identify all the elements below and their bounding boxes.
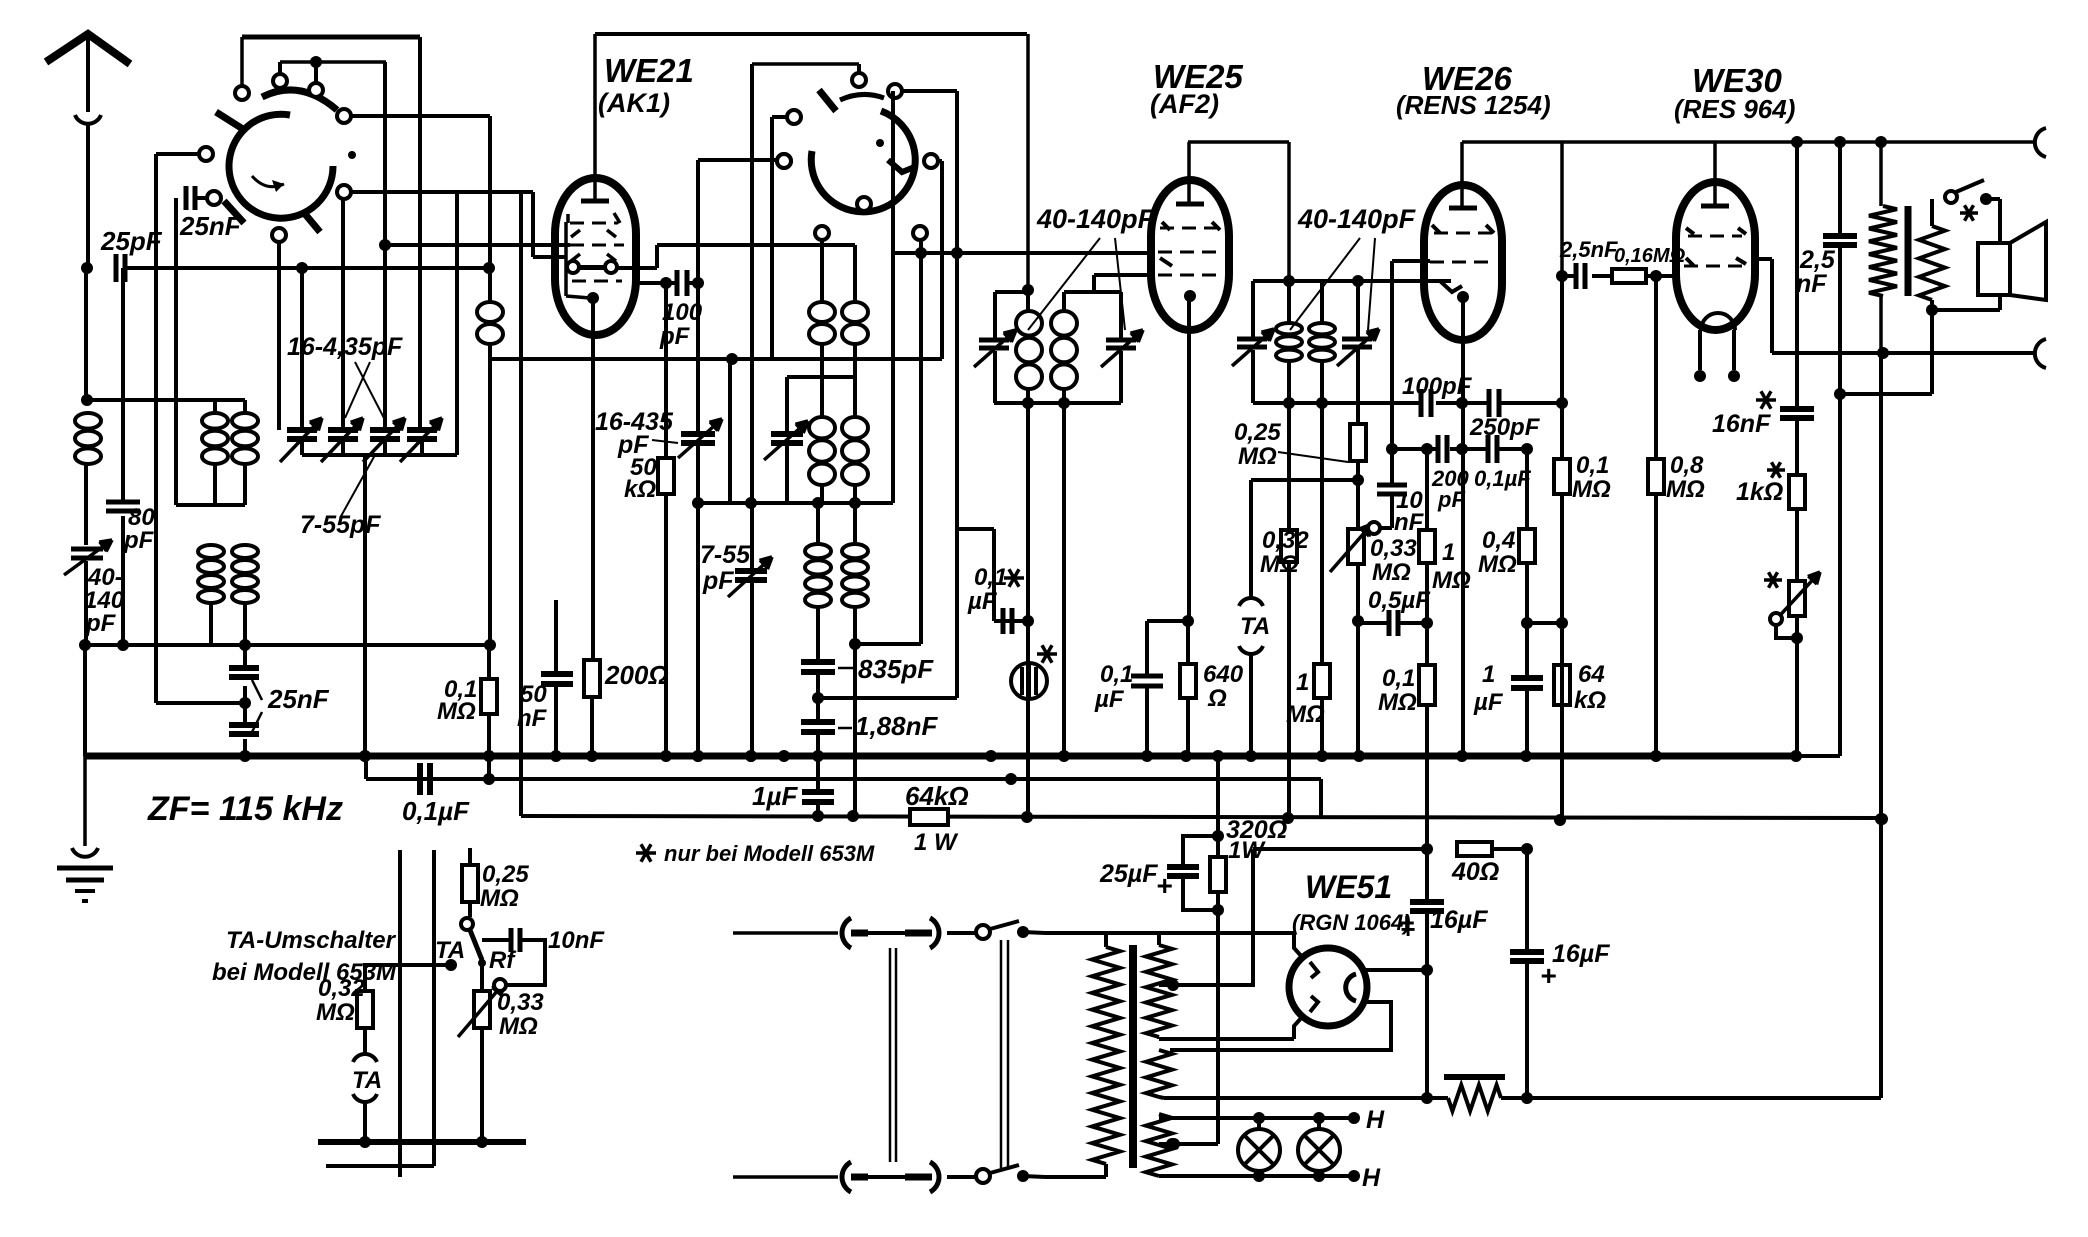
capacitor 1uF b	[1525, 623, 1529, 677]
wire WE26 top	[1460, 142, 1464, 206]
IFT1 left leg	[993, 292, 997, 341]
svg-text:250pF: 250pF	[1469, 414, 1541, 441]
svg-text:pF: pF	[617, 431, 649, 459]
coil L2a	[213, 400, 217, 412]
IFT2 top	[1253, 279, 1451, 283]
wire x457	[455, 192, 459, 455]
svg-text:H: H	[1362, 1164, 1381, 1192]
capacitor 0.1uF c	[1486, 435, 1491, 463]
coil L3a	[198, 545, 224, 558]
svg-text:MΩ: MΩ	[437, 698, 476, 725]
WE26 top cap	[1449, 206, 1477, 211]
variable capacitor 16-435pF gang 3	[370, 427, 400, 433]
wire cathode	[1187, 296, 1191, 621]
wire cath link	[1147, 619, 1188, 623]
resistor 64kOhm b	[1554, 665, 1570, 705]
wire AG	[855, 642, 921, 646]
wire bus extension	[1798, 754, 1840, 758]
wire y390	[86, 398, 245, 402]
wire x1881 low	[1879, 353, 1883, 1098]
svg-text:MΩ: MΩ	[1432, 567, 1471, 594]
wire J	[698, 158, 778, 162]
resistor 0.16MOhm	[1612, 269, 1646, 283]
mains switch top	[947, 931, 976, 935]
wire x921	[919, 253, 923, 644]
mains switch bottom	[947, 1175, 976, 1179]
wire y455	[302, 453, 457, 457]
wire F	[350, 114, 490, 118]
wire Y	[1251, 478, 1358, 482]
capacitor 2.5nF	[1574, 263, 1579, 289]
svg-text:1: 1	[1482, 661, 1495, 688]
tube WE51	[1289, 948, 1367, 1026]
capacitor 250pF	[1487, 389, 1492, 417]
wire antenna down	[84, 268, 88, 400]
wire U	[787, 375, 855, 379]
coil L3b	[232, 545, 258, 558]
wire S	[1772, 351, 2035, 355]
resistor 320 Ohm	[1210, 857, 1226, 892]
svg-text:ZF= 115 kHz: ZF= 115 kHz	[147, 790, 343, 828]
capacitor 0.1uF star	[1001, 608, 1006, 634]
TA coupler b	[363, 1028, 367, 1053]
switch blade	[216, 112, 246, 131]
IFT2 right chain	[1356, 281, 1360, 339]
resistor 0.32MOhm	[357, 991, 373, 1028]
variable capacitor 16-435pF gang 4	[407, 427, 437, 433]
mains lead bottom	[733, 1175, 838, 1179]
mains cable b	[1000, 940, 1003, 1168]
svg-text:H: H	[1366, 1106, 1385, 1134]
wire x302	[300, 268, 304, 428]
switch Rf blade	[470, 930, 482, 960]
rotary switch S2 arc	[811, 111, 915, 212]
wire x1289 avc	[1287, 403, 1291, 530]
wire	[857, 64, 861, 74]
mains cable	[889, 948, 892, 1162]
WE21 cathode	[587, 292, 599, 304]
svg-text:835pF: 835pF	[858, 654, 934, 684]
svg-text:TA: TA	[1240, 613, 1270, 640]
svg-text:10nF: 10nF	[548, 927, 605, 954]
capacitor 1.88nF	[801, 719, 835, 725]
osc coil L5b	[853, 245, 857, 301]
svg-text:1kΩ: 1kΩ	[1736, 478, 1783, 506]
contact	[913, 226, 927, 240]
WE25 internals	[1160, 227, 1222, 230]
svg-text:2,5nF: 2,5nF	[1559, 237, 1618, 262]
contact	[1368, 522, 1380, 534]
wire WE30 top	[1713, 142, 1717, 204]
variable capacitor 40-140 b	[1106, 338, 1136, 343]
capacitor 50nF	[554, 600, 558, 672]
tube WE26 envelope	[1424, 185, 1502, 340]
svg-text:40-140pF: 40-140pF	[1036, 204, 1156, 234]
capacitor 1uF	[816, 756, 820, 791]
node	[1022, 284, 1034, 296]
svg-text:TA-Umschalter: TA-Umschalter	[226, 927, 397, 954]
mains lead top	[733, 931, 838, 935]
switch blade	[1956, 180, 1984, 192]
trimmer 7-55pF c	[735, 568, 767, 574]
IFT1 coil a	[1026, 292, 1030, 310]
WE30 anode out	[1755, 257, 1772, 261]
wire x698	[696, 160, 700, 434]
resistor 0.4MOhm	[1525, 449, 1529, 529]
switch blade	[819, 90, 836, 111]
svg-text:0,33: 0,33	[1370, 535, 1417, 562]
wire L1	[364, 756, 368, 779]
node	[483, 262, 495, 274]
output choke	[1879, 142, 1883, 206]
svg-text:1: 1	[1442, 539, 1455, 566]
svg-text:200Ω: 200Ω	[604, 660, 669, 690]
svg-text:(AF2): (AF2)	[1150, 89, 1219, 119]
wire x893	[891, 91, 895, 503]
HV center tap	[1159, 849, 1253, 985]
svg-text:nur bei Modell 653M: nur bei Modell 653M	[664, 841, 875, 866]
coil L2b	[243, 400, 247, 412]
core bar	[1905, 206, 1912, 296]
wire x994 chain	[992, 529, 996, 621]
wire x1427 down	[1425, 563, 1429, 665]
capacitor 0.5uF	[1358, 621, 1389, 625]
osc coil L5a	[820, 239, 824, 301]
wire AI	[818, 696, 957, 700]
svg-text:µF: µF	[1473, 689, 1504, 716]
coil L4	[477, 302, 503, 322]
wire	[772, 115, 788, 119]
wire x489	[487, 645, 491, 679]
IFT2 coil a	[1287, 281, 1291, 322]
osc coil L7a	[816, 503, 820, 543]
WE21 internal grids	[566, 214, 570, 223]
antenna	[46, 34, 130, 64]
svg-text:pF: pF	[659, 323, 691, 350]
wire grid line y244	[379, 239, 391, 251]
svg-text:16µF: 16µF	[1552, 940, 1610, 968]
switch blade	[305, 214, 320, 232]
wire x422	[418, 37, 422, 428]
variable capacitor 40-140pF	[71, 547, 103, 552]
contact	[924, 154, 938, 168]
svg-text:(RENS 1254): (RENS 1254)	[1396, 90, 1551, 120]
capacitor 100pF	[636, 281, 677, 285]
switch blade	[888, 160, 917, 172]
resistor 200 Ohm	[584, 660, 600, 697]
variable capacitor 40-140 c	[1237, 337, 1267, 342]
WE30 filament legs	[1698, 330, 1702, 370]
svg-text:MΩ: MΩ	[480, 885, 519, 912]
resistor 0.8MOhm	[1654, 276, 1658, 459]
contact	[337, 185, 351, 199]
output terminal bottom	[2035, 339, 2046, 368]
wire x385	[383, 62, 387, 428]
svg-text:0,4: 0,4	[1482, 527, 1515, 554]
svg-text:0,1µF: 0,1µF	[1474, 466, 1531, 491]
wire 25nF chain	[243, 645, 247, 667]
wire T	[490, 357, 942, 361]
wire y645	[85, 643, 490, 647]
switch blade	[224, 201, 244, 223]
svg-text:0,25: 0,25	[1234, 419, 1281, 446]
svg-text:MΩ: MΩ	[1378, 689, 1417, 716]
wire WE51 fil out	[1366, 968, 1427, 972]
ground	[83, 756, 87, 846]
contact	[273, 74, 287, 88]
osc coil L6a	[820, 377, 824, 416]
wire L2	[521, 816, 1882, 818]
svg-text:pF: pF	[702, 567, 734, 595]
IFT1 top	[995, 290, 1028, 294]
trimmer 7-55pF b	[785, 377, 789, 434]
wire y62	[280, 60, 386, 64]
WE26 grid hook	[1440, 281, 1462, 292]
svg-text:1W: 1W	[1228, 837, 1266, 864]
wire jog x666	[664, 283, 668, 756]
wire H rail	[1462, 140, 2035, 144]
contact	[235, 86, 249, 100]
transformer core	[1129, 945, 1137, 1168]
wire D	[752, 62, 859, 66]
wire heater bottom	[1159, 1174, 1354, 1178]
svg-text:MΩ: MΩ	[1478, 551, 1517, 578]
svg-text:TA: TA	[352, 1067, 382, 1094]
variable resistor 0.33MOhm b	[480, 963, 484, 991]
svg-text:MΩ: MΩ	[1238, 443, 1277, 470]
transformer HV winding	[1157, 933, 1161, 945]
capacitor 0.1uF	[417, 763, 423, 795]
svg-text:µF: µF	[1094, 686, 1125, 713]
node	[1352, 275, 1364, 287]
svg-text:pF: pF	[123, 527, 155, 554]
wire WE26 cath	[1461, 297, 1465, 756]
transformer heater winding	[1146, 1114, 1172, 1176]
wire x1064 down	[1062, 403, 1066, 756]
svg-text:0,1: 0,1	[1382, 665, 1415, 692]
WE51 fil wires	[1170, 1002, 1391, 1050]
svg-text:16-4,35pF: 16-4,35pF	[287, 333, 403, 361]
wire grid circle line	[566, 266, 657, 270]
tube WE25 envelope	[1151, 180, 1229, 330]
IFT1 bottom	[994, 401, 1121, 405]
resistor 0.1MOhm a	[1560, 403, 1564, 459]
wire N	[1562, 274, 1576, 278]
capacitor 0.1uF we25	[1145, 621, 1149, 675]
svg-text:+: +	[1156, 870, 1172, 901]
wire x855 down	[853, 644, 857, 816]
wire spk bottom	[1926, 304, 1938, 316]
pilot lamp 1	[1238, 1129, 1280, 1171]
IFT1 coil b	[1062, 292, 1066, 310]
svg-text:7-55: 7-55	[700, 541, 751, 569]
pot wiper loop	[1770, 613, 1782, 625]
svg-text:0,1: 0,1	[1100, 661, 1133, 688]
svg-text:(RES 964): (RES 964)	[1674, 94, 1795, 124]
WE51 plate wires	[1294, 934, 1303, 958]
contact	[787, 110, 801, 124]
wire cathode x593	[591, 298, 595, 660]
wire B top	[595, 32, 1027, 36]
capacitor 100pF b	[1419, 389, 1424, 417]
svg-text:kΩ: kΩ	[1574, 687, 1606, 714]
label 1.88nF	[838, 727, 852, 730]
wire y703	[156, 701, 245, 705]
inset wire x434	[432, 850, 436, 1166]
IFT2 coil b	[1320, 281, 1324, 322]
svg-text:+: +	[1400, 914, 1415, 944]
svg-text:64kΩ: 64kΩ	[905, 781, 969, 811]
resistor 0.25MOhm	[1356, 403, 1360, 424]
osc coil L6b	[853, 377, 857, 416]
resistor 0.32MOhm b	[1281, 530, 1297, 562]
svg-text:0,1: 0,1	[1576, 452, 1609, 479]
WE30 cathode dome	[1701, 313, 1735, 330]
svg-text:25µF: 25µF	[1099, 860, 1158, 888]
switch arrow	[252, 176, 284, 187]
IFT1 right leg	[1119, 292, 1123, 341]
svg-text:0,32: 0,32	[1262, 527, 1309, 554]
svg-text:(AK1): (AK1)	[598, 88, 670, 118]
pilot lamp 2	[1298, 1129, 1340, 1171]
svg-text:640: 640	[1203, 661, 1244, 688]
wire x1289	[1287, 142, 1291, 281]
resistor 0.1MOhm we21	[481, 679, 497, 714]
svg-text:16nF: 16nF	[1712, 410, 1771, 438]
svg-text:1: 1	[1296, 669, 1309, 696]
capacitor 10nF	[482, 938, 510, 942]
mains plug bottom	[842, 1162, 851, 1192]
inset bus	[318, 1139, 526, 1145]
variable capacitor 16-435pF gang 2	[328, 427, 358, 433]
label 835pF	[838, 667, 855, 670]
contact	[888, 84, 902, 98]
variable resistor 0.33MOhm	[1348, 529, 1364, 564]
wire bottom psu	[1164, 1096, 1448, 1100]
svg-text:64: 64	[1578, 661, 1605, 688]
capacitor 2.5nF b	[1838, 142, 1842, 235]
wire ground drop	[83, 645, 87, 756]
wire grid jog up	[655, 245, 659, 268]
wire x1028	[1026, 34, 1030, 292]
wire WE26 anode chain	[1560, 142, 1564, 276]
capacitor 25pF	[114, 254, 119, 282]
capacitor 25uF	[1183, 836, 1218, 866]
capacitor 10nF mid	[1390, 261, 1394, 449]
capacitor 16uF a	[1425, 849, 1429, 901]
svg-text:MΩ: MΩ	[499, 1013, 538, 1040]
svg-text:1,88nF: 1,88nF	[855, 711, 938, 741]
wire C heavy top	[242, 35, 420, 40]
wire x1218	[1216, 756, 1220, 857]
inset wire y1166	[326, 1164, 434, 1168]
svg-text:0,5µF: 0,5µF	[1368, 587, 1431, 614]
wire L	[894, 251, 1151, 255]
wire E	[901, 89, 957, 93]
contact	[207, 191, 221, 205]
inset wire x400	[398, 850, 402, 1177]
wire x1322 down	[1320, 403, 1324, 664]
variable capacitor 16-435pF trim	[681, 431, 715, 437]
WE21 top cap	[581, 199, 609, 204]
contact	[272, 228, 286, 242]
resistor 64kOhm 1W	[910, 809, 948, 825]
wire x1840 low	[1838, 394, 1842, 756]
svg-text:MΩ: MΩ	[316, 999, 355, 1026]
contact	[199, 147, 213, 161]
resistor 50kOhm	[658, 458, 674, 494]
node A1	[81, 262, 93, 274]
svg-text:25pF: 25pF	[100, 226, 163, 256]
resistor 40 Ohm	[1457, 842, 1492, 856]
wire x1527	[1525, 563, 1529, 623]
wire I	[156, 152, 200, 156]
svg-text:16µF: 16µF	[1430, 906, 1488, 934]
contact	[337, 109, 351, 123]
wire grid tap	[1064, 290, 1094, 294]
svg-text:pF: pF	[85, 610, 117, 637]
svg-text:50: 50	[520, 681, 547, 708]
svg-text:nF: nF	[1796, 270, 1827, 298]
contact	[309, 83, 323, 97]
svg-text:WE21: WE21	[604, 52, 694, 89]
capacitor 16uF b	[1525, 849, 1529, 951]
wire y505	[176, 503, 245, 507]
WE25 top cap	[1176, 202, 1204, 207]
wire x490	[488, 268, 492, 301]
tube WE30 envelope	[1676, 182, 1755, 330]
resistor 0.1MOhm b	[1419, 665, 1435, 705]
variable capacitor 40-140 d	[1342, 337, 1372, 342]
resistor 1MOhm a	[1314, 664, 1330, 698]
svg-text:40-140pF: 40-140pF	[1297, 204, 1417, 234]
svg-text:MΩ: MΩ	[1260, 551, 1299, 578]
wire x521	[519, 192, 523, 816]
wire Z y503	[698, 501, 893, 505]
svg-text:0,8: 0,8	[1670, 452, 1704, 479]
wire x730	[728, 359, 732, 503]
heater tap	[1166, 1138, 1178, 1150]
wire V y403	[1358, 401, 1421, 405]
capacitor 80pF	[121, 268, 125, 500]
svg-text:µF: µF	[967, 588, 998, 615]
resistor 1kOhm	[1789, 475, 1805, 509]
phono jack circle	[1011, 663, 1047, 699]
svg-text:WE51: WE51	[1305, 869, 1392, 905]
wire L1 drop	[1319, 779, 1323, 816]
svg-text:0,33: 0,33	[497, 989, 544, 1016]
wire AE	[1527, 621, 1562, 625]
svg-text:1µF: 1µF	[752, 781, 798, 811]
contact	[815, 226, 829, 240]
variable capacitor 40-140 a	[979, 338, 1009, 343]
svg-text:MΩ: MΩ	[1372, 559, 1411, 586]
WE21 grid contacts	[567, 261, 579, 273]
WE30 top cap	[1701, 204, 1729, 209]
wire x343	[341, 198, 345, 428]
wire TA link	[365, 965, 448, 991]
wire x1562 low	[1560, 494, 1564, 820]
wire WE26 grid seg	[1392, 259, 1430, 263]
WE30 internals	[1686, 228, 1694, 234]
capacitor 16nF	[1795, 142, 1799, 408]
resistor 1MOhm b	[1425, 449, 1429, 530]
capacitor 200pF	[1436, 435, 1441, 463]
variable resistor star	[1789, 581, 1805, 616]
svg-text:25nF: 25nF	[267, 684, 330, 714]
wire heater top	[1159, 1116, 1354, 1120]
WE26 cathode	[1457, 291, 1469, 303]
